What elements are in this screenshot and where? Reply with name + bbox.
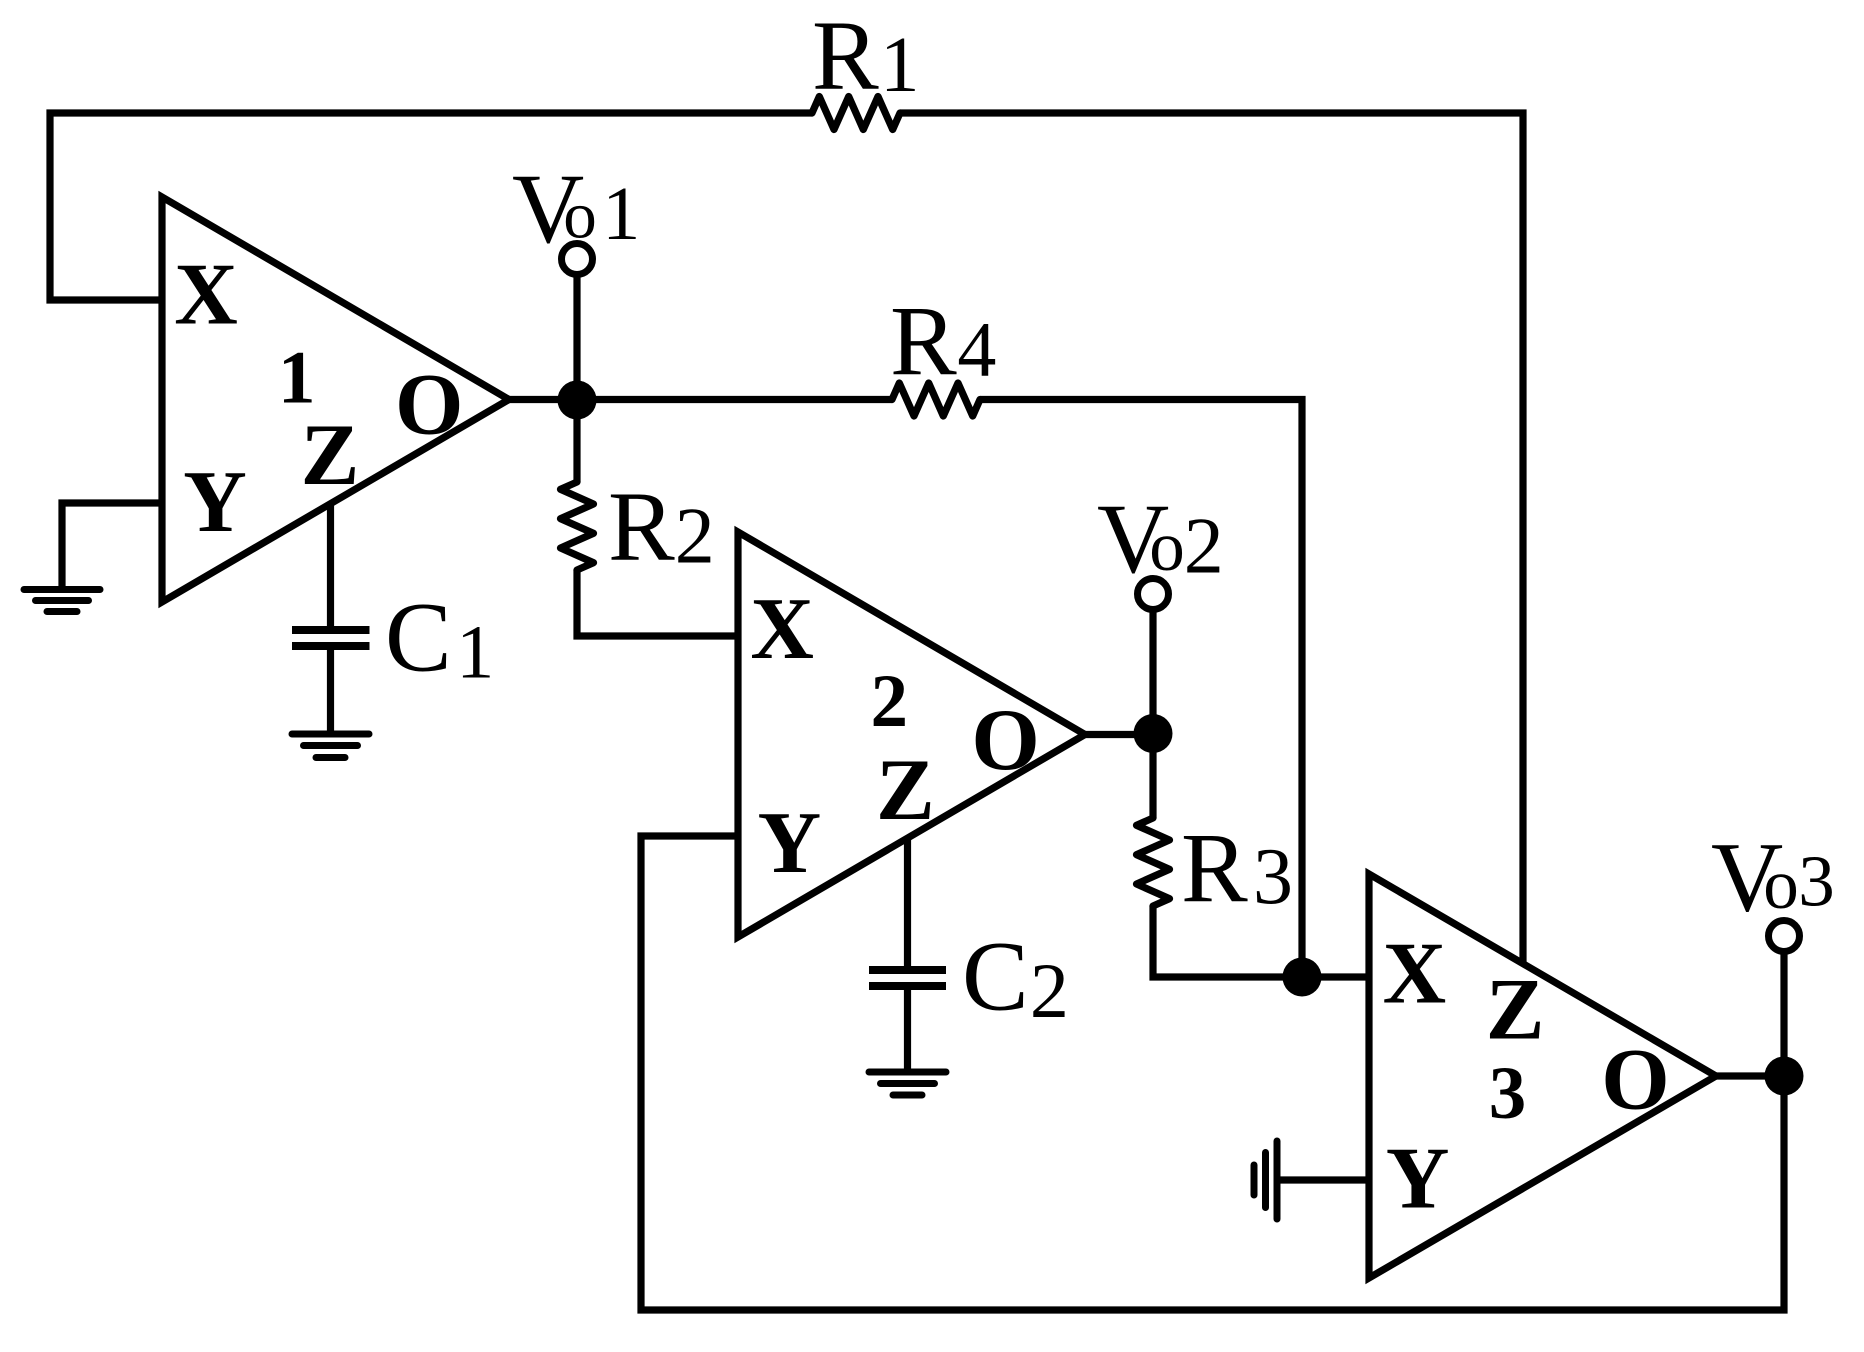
terminal Vo2 — [1138, 579, 1169, 610]
svg-text:X: X — [174, 246, 238, 343]
op-amp U3 (CCII block 3) — [1369, 874, 1716, 1278]
wire: O2 output — [1085, 731, 1153, 738]
label Vo1 — [512, 153, 640, 264]
wire: C1 to ground — [327, 650, 334, 733]
svg-text:1: 1 — [456, 611, 494, 695]
capacitor C1 — [292, 630, 370, 646]
terminal Vo3 — [1769, 921, 1800, 952]
svg-text:C: C — [962, 920, 1029, 1031]
wire: Vo3 stem — [1780, 954, 1787, 1077]
svg-text:C: C — [385, 582, 452, 693]
wire: Z1 lead — [327, 504, 334, 626]
label R3 — [1181, 812, 1293, 923]
svg-text:o: o — [1149, 508, 1185, 586]
label C1 — [385, 582, 494, 695]
svg-text:R: R — [890, 285, 957, 396]
wire: Vo2 stem — [1149, 612, 1156, 735]
svg-text:R: R — [1181, 812, 1248, 923]
wire: Vo1 stem — [573, 277, 580, 401]
wire: O3 output — [1716, 1072, 1784, 1079]
wire: Y2 lead, left riser, bottom run, right riser to node O3 — [641, 836, 1784, 1310]
label R1 — [812, 0, 920, 111]
svg-text:2: 2 — [1184, 502, 1224, 590]
resistor R2 — [561, 482, 594, 570]
wire: R2 to X2 lead — [577, 570, 738, 636]
svg-text:X: X — [1383, 925, 1447, 1022]
svg-text:2: 2 — [1030, 947, 1069, 1034]
svg-text:2: 2 — [871, 660, 909, 743]
svg-text:Z: Z — [876, 742, 935, 839]
svg-text:O: O — [971, 692, 1039, 789]
wire: Z2 lead — [904, 838, 911, 966]
svg-text:Z: Z — [301, 407, 360, 504]
wire: feedback loop top-left (X1 lead, left riser, top run to R1) — [50, 113, 812, 300]
op-amp U1 (CCII block 1) — [162, 197, 509, 602]
svg-text:3: 3 — [1489, 1052, 1527, 1135]
wire: O1 output to R4 — [509, 396, 892, 403]
svg-text:2: 2 — [675, 492, 715, 580]
svg-text:Y: Y — [1386, 1131, 1450, 1228]
node D (O3 junction) — [1765, 1057, 1804, 1096]
svg-text:Y: Y — [183, 454, 247, 551]
resistor R1 — [812, 97, 900, 130]
label C2 — [962, 920, 1069, 1034]
svg-text:O: O — [395, 357, 463, 454]
wire: node B to R3 — [1149, 734, 1156, 818]
svg-text:X: X — [750, 581, 814, 678]
svg-text:Z: Z — [1486, 962, 1545, 1059]
resistor R4 — [892, 383, 980, 416]
wire: node1 to R2 — [573, 400, 580, 482]
svg-text:R: R — [608, 470, 675, 581]
svg-text:1: 1 — [880, 22, 920, 109]
node A (O1 junction) — [558, 381, 597, 420]
node C (X3 junction) — [1283, 958, 1322, 997]
wire: C2 to ground — [904, 990, 911, 1071]
ground (C2) — [869, 1072, 946, 1095]
label Vo2 — [1097, 483, 1224, 594]
svg-text:4: 4 — [957, 306, 996, 393]
svg-text:O: O — [1601, 1031, 1669, 1128]
svg-text:1: 1 — [278, 336, 316, 419]
wire: R4 to riser, down to X3 node — [980, 400, 1302, 978]
svg-text:R: R — [812, 0, 879, 111]
label Vo3 — [1711, 821, 1835, 932]
ground (C1) — [292, 734, 369, 758]
capacitor C2 — [869, 970, 946, 986]
node B (O2 junction) — [1134, 714, 1173, 753]
resistor R3 — [1137, 818, 1170, 906]
svg-text:o: o — [1763, 846, 1799, 924]
svg-text:3: 3 — [1253, 833, 1293, 921]
wire: Y1 lead to ground — [62, 503, 162, 589]
wire: R3 to X3 lead — [1153, 906, 1369, 977]
wire: R1 to right riser down to Z3 pin — [900, 113, 1523, 963]
ground (Y3, sideways) — [1254, 1141, 1277, 1219]
ground (Y1) — [24, 590, 100, 612]
wire: Y3 lead — [1277, 1176, 1369, 1183]
terminal Vo1 — [562, 244, 593, 275]
svg-text:1: 1 — [602, 172, 640, 256]
svg-text:Y: Y — [758, 795, 822, 892]
svg-text:o: o — [563, 178, 597, 252]
label R2 — [608, 470, 715, 581]
svg-text:3: 3 — [1798, 840, 1835, 921]
label R4 — [890, 285, 996, 396]
op-amp U2 (CCII block 2) — [738, 532, 1085, 937]
